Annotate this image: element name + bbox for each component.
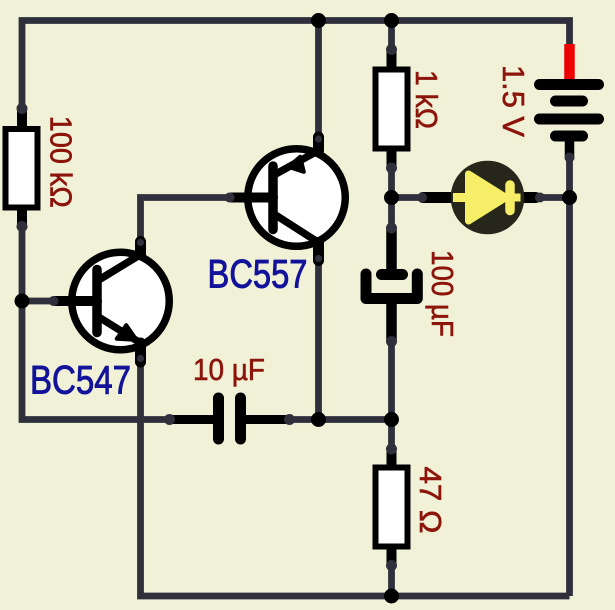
junction node 10uF / BC557 collector: [311, 412, 326, 427]
wire: BC557 emitter pin up to top rail: [315, 21, 322, 137]
junction node top rail / BC557 emitter: [311, 13, 326, 28]
transistor Q2 BC557 PNP: [225, 135, 346, 262]
svg-text:10 µF: 10 µF: [193, 352, 265, 387]
svg-text:1 kΩ: 1 kΩ: [409, 70, 444, 129]
wire: 100uF bottom lead down to cap row node: [388, 342, 395, 420]
capacitor C2 100uF polarized: [366, 223, 417, 348]
wire: 47R bottom pin down to bottom rail: [388, 566, 395, 597]
wire: 1k bottom pin to LED node: [388, 168, 395, 198]
resistor R2 1k: [376, 44, 408, 174]
wire: BC547 collector up and right to BC557 base: [141, 198, 231, 243]
junction node 1k / LED / 100uF: [384, 190, 399, 205]
wire: cap row node down to 47R top pin: [388, 420, 395, 450]
LED D1: [417, 161, 545, 235]
junction node top rail / 1k: [384, 13, 399, 28]
wire: 10uF right lead to 47R node: [290, 416, 392, 423]
transistor Q1 BC547 NPN: [49, 239, 170, 362]
wire: LED node down to 100uF top lead: [388, 198, 395, 229]
junction node cap row / 47R: [384, 412, 399, 427]
wire: BC547 emitter down to bottom rail, across to right column: [141, 366, 570, 596]
junction node bottom rail / 47R: [384, 589, 399, 604]
junction node 100k / BC547 base: [15, 294, 30, 309]
svg-text:BC557: BC557: [208, 253, 308, 297]
wire: left column from 100k bottom down to 10uF left lead: [22, 226, 170, 420]
resistor R1 100k: [6, 103, 38, 232]
svg-text:1.5 V: 1.5 V: [496, 65, 531, 137]
wire: top rail from 100k top, across, down to battery +: [22, 21, 570, 110]
wire: right column battery minus / LED node down to bottom rail: [566, 158, 573, 597]
capacitor C1 10uF: [164, 398, 295, 439]
svg-text:100 µF: 100 µF: [425, 250, 460, 337]
wire: LED right pin to battery column: [540, 194, 570, 201]
svg-text:47 Ω: 47 Ω: [413, 467, 448, 534]
resistor R3 47 ohm: [376, 444, 408, 572]
wire: LED node to LED left pin: [392, 194, 423, 201]
wire: BC557 collector pin down to cap row: [315, 262, 322, 420]
svg-text:BC547: BC547: [30, 359, 131, 403]
svg-text:100 kΩ: 100 kΩ: [44, 116, 79, 208]
wire: 1k top pin to top rail: [388, 21, 395, 48]
junction node LED / battery minus: [562, 190, 577, 205]
wire: BC547 base to node at (22,301): [22, 298, 55, 305]
battery B1 1.5V: [540, 44, 599, 163]
